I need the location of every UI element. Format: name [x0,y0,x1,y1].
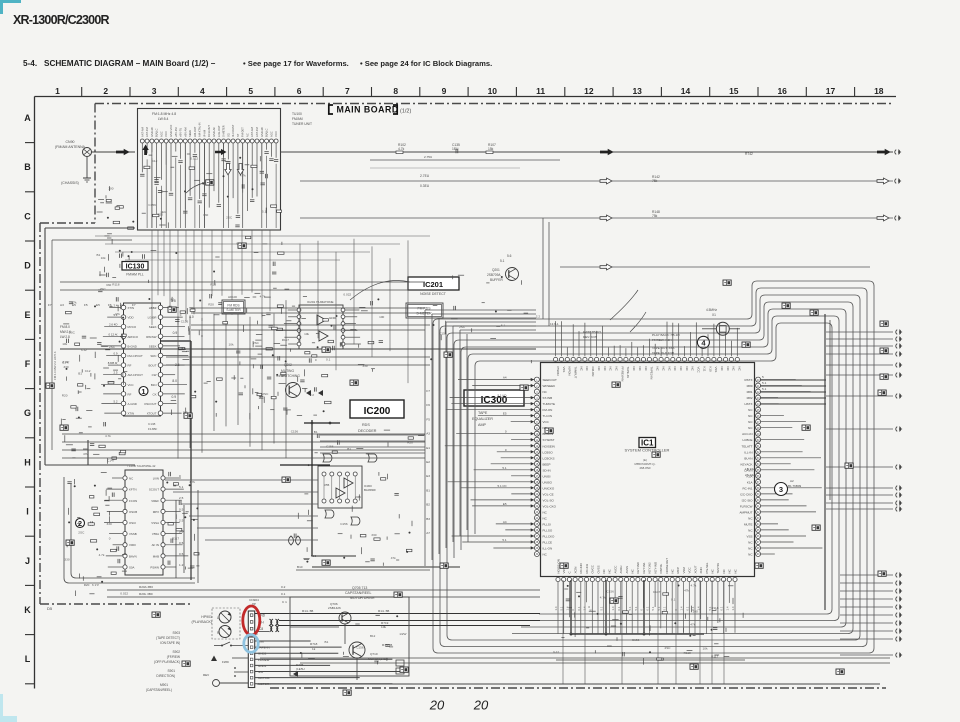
svg-text:NC: NC [129,477,133,481]
svg-text:LW:5.4: LW:5.4 [158,117,169,121]
svg-text:10k: 10k [381,625,386,629]
svg-text:VCC: VCC [697,367,701,373]
svg-text:C147: C147 [653,590,661,594]
svg-text:5.1: 5.1 [762,381,767,385]
svg-text:NC: NC [722,569,726,573]
svg-text:MPX: MPX [153,510,159,514]
svg-text:330: 330 [63,365,68,369]
svg-text:FM:8.0: FM:8.0 [60,325,70,329]
svg-text:SG: SG [226,133,230,137]
svg-text:V55: V55 [324,483,330,487]
svg-text:OSCI: OSCI [129,521,136,525]
svg-text:8: 8 [393,86,398,96]
svg-text:MAB: MAB [153,554,159,558]
svg-text:V000: V000 [129,543,136,547]
svg-text:CK: CK [152,392,156,396]
svg-text:0.1: 0.1 [617,606,621,610]
svg-text:F6: F6 [426,403,430,407]
svg-text:VSSA: VSSA [151,521,159,525]
svg-text:0.022: 0.022 [190,156,198,160]
svg-text:10k: 10k [101,256,106,260]
svg-text:B1.76B09: B1.76B09 [788,484,802,488]
svg-text:(CAPSTAN/REEL): (CAPSTAN/REEL) [146,688,172,692]
svg-text:NC: NC [585,367,589,371]
svg-text:KIPON: KIPON [568,367,572,376]
svg-text:10k: 10k [229,342,234,346]
svg-text:MOTOR DRIVE: MOTOR DRIVE [350,596,375,600]
svg-text:A7: A7 [426,531,430,535]
svg-text:12: 12 [584,86,594,96]
svg-text:H: H [24,457,31,467]
svg-text:0.1: 0.1 [326,358,331,362]
svg-text:17: 17 [826,86,836,96]
svg-text:(OFF:PLAYBACK): (OFF:PLAYBACK) [154,660,180,664]
svg-text:0.1: 0.1 [577,606,581,610]
svg-text:F: F [25,359,31,369]
svg-text:B3: B3 [426,517,430,521]
svg-text:20: 20 [473,698,489,713]
svg-text:4.7k: 4.7k [398,147,405,151]
svg-text:0-12: 0-12 [553,650,559,654]
svg-text:• See page 24 for IC Block Dia: • See page 24 for IC Block Diagrams. [360,59,492,68]
svg-text:C: C [24,211,31,221]
svg-text:R20: R20 [62,393,68,397]
svg-text:GND-AF: GND-AF [212,127,216,137]
svg-text:FM-DET: FM-DET [241,127,245,137]
svg-text:XTOUT: XTOUT [147,412,157,416]
svg-text:R118: R118 [684,651,691,655]
svg-text:B1: B1 [78,372,82,376]
svg-text:IF-AM: IF-AM [202,130,206,137]
svg-text:TAPE: TAPE [478,411,488,415]
svg-text:XOUT: XOUT [693,565,697,573]
svg-text:LVIN: LVIN [153,477,159,481]
svg-text:5: 5 [762,375,764,379]
svg-text:RSTX: RSTX [744,378,752,382]
svg-text:SEEKOUT: SEEKOUT [543,378,558,382]
svg-text:B10: B10 [297,565,303,569]
svg-text:C156: C156 [148,203,156,207]
svg-text:13: 13 [632,86,642,96]
svg-text:FM/AM: FM/AM [292,117,303,121]
svg-text:A3: A3 [60,303,64,307]
svg-text:AM-XTAL-IN: AM-XTAL-IN [198,122,202,137]
svg-text:FM:1.8 MHz 4.8: FM:1.8 MHz 4.8 [152,112,176,116]
svg-text:WFSEEK: WFSEEK [543,384,556,388]
svg-text:S-METER: S-METER [416,312,432,316]
svg-text:4.7k: 4.7k [99,553,105,557]
svg-text:C147: C147 [107,459,115,463]
svg-text:NOISE RET: NOISE RET [665,558,669,574]
svg-text:5.1 I/O: 5.1 I/O [497,484,507,488]
svg-text:MCP: MCP [676,567,680,573]
svg-text:OSCB: OSCB [129,510,137,514]
svg-text:MW:2.6: MW:2.6 [60,330,71,334]
svg-text:K1A: K1A [747,480,753,484]
svg-text:0.9: 0.9 [172,395,177,399]
svg-text:C156: C156 [439,332,447,336]
svg-text:M901: M901 [160,683,168,687]
svg-text:1.4: 1.4 [583,606,587,610]
svg-text:XR-1300R/C2300R: XR-1300R/C2300R [13,13,109,27]
svg-text:OVCC: OVCC [591,565,595,573]
svg-text:(1E5U: (1E5U [296,667,305,671]
svg-text:D5: D5 [47,606,53,611]
svg-text:NC: NC [691,367,695,371]
svg-text:M82: M82 [747,396,753,400]
svg-text:2.2: 2.2 [536,314,541,318]
svg-text:UNISO: UNISO [543,480,553,484]
svg-text:R718: R718 [310,642,318,646]
svg-text:NC: NC [579,367,583,371]
svg-text:1: 1 [141,387,145,396]
svg-text:RC-INO: RC-INO [579,562,583,573]
svg-text:AMPMUT: AMPMUT [740,510,753,514]
svg-text:0.5: 0.5 [179,552,184,556]
svg-text:R117: R117 [282,338,289,342]
svg-text:2SB709A: 2SB709A [487,273,501,277]
svg-text:A4: A4 [503,376,507,380]
svg-text:0: 0 [179,474,181,478]
svg-text:KEY-INO: KEY-INO [653,561,657,573]
svg-text:NC: NC [602,569,606,573]
svg-text:1k: 1k [312,647,316,651]
svg-text:R14-.5B: R14-.5B [378,609,389,613]
svg-text:PLAY BACK: H5-1H: PLAY BACK: H5-1H [652,333,680,337]
svg-text:2.75U: 2.75U [424,155,432,159]
svg-text:VSS: VSS [714,367,718,373]
svg-text:ARNCO: ARNCO [128,335,139,339]
svg-text:AVSS: AVSS [625,566,629,574]
svg-text:2.5: 2.5 [113,371,117,375]
svg-text:TAMRUT: TAMRUT [574,367,578,379]
svg-text:SRC: SRC [150,354,156,358]
svg-text:0.9: 0.9 [173,331,178,335]
svg-text:C156: C156 [181,320,189,324]
svg-text:MAIN BOARD: MAIN BOARD [337,105,399,115]
svg-text:ACC-IN: ACC-IN [742,432,752,436]
svg-text:R742: R742 [745,152,753,156]
svg-text:S903: S903 [173,631,181,635]
svg-text:(FM/AM ANTENNA: (FM/AM ANTENNA [55,145,86,149]
svg-text:1: 1 [55,86,60,96]
svg-text:NC: NC [597,367,601,371]
svg-text:S901: S901 [168,669,176,673]
svg-text:PLLSI: PLLSI [543,522,551,526]
svg-text:NC: NC [246,133,250,137]
svg-text:2SC: 2SC [100,287,107,291]
svg-text:IC1: IC1 [641,439,654,448]
svg-text:HSTX: HSTX [744,402,752,406]
svg-text:A3: A3 [426,432,430,436]
svg-text:IC201: IC201 [423,280,443,289]
svg-text:R20A 3B0: R20A 3B0 [139,585,153,589]
svg-text:2.5: 2.5 [179,519,184,523]
svg-text:B2: B2 [426,503,430,507]
svg-text:VDD: VDD [128,316,134,320]
svg-text:C138: C138 [148,422,156,426]
svg-text:330: 330 [371,533,376,537]
svg-text:E5: E5 [72,303,76,307]
svg-text:S-METER: S-METER [226,308,241,312]
svg-text:K11: K11 [702,367,706,372]
svg-text:0 12.4(: 0 12.4( [109,332,118,336]
svg-text:• See page 17 for Waveforms.: • See page 17 for Waveforms. [243,59,349,68]
svg-text:B(A)LC: B(A)LC [155,128,159,137]
svg-text:VOL-CE: VOL-CE [543,492,554,496]
svg-text:7: 7 [345,86,350,96]
svg-text:XNN: XNN [699,567,703,573]
svg-text:VSM: VSM [682,567,686,574]
svg-text:BUFFER: BUFFER [490,278,503,282]
svg-text:TUNER UNIT: TUNER UNIT [292,122,312,126]
svg-text:A-GND: A-GND [128,402,137,406]
svg-text:LW:2.8: LW:2.8 [60,335,70,339]
svg-text:NC: NC [632,367,636,371]
svg-text:C 1: C 1 [282,600,287,604]
svg-text:18: 18 [874,86,884,96]
svg-text:OVSS: OVSS [596,565,600,573]
svg-text:KEYACK: KEYACK [741,462,753,466]
svg-text:V55A: V55A [152,532,159,536]
svg-text:D: D [24,261,31,271]
svg-text:TESTIN: TESTIN [716,563,720,573]
svg-text:NC: NC [711,569,715,573]
svg-text:I2C-CKO: I2C-CKO [740,492,753,496]
svg-text:ONTRL: ONTRL [659,563,663,573]
svg-text:Q705 713: Q705 713 [352,586,367,590]
svg-text:2SC: 2SC [226,215,233,219]
svg-text:R20: R20 [311,554,317,558]
svg-text:E3: E3 [426,474,430,478]
svg-text:1.2: 1.2 [179,563,184,567]
svg-text:FF/REW-IN: FF/REW-IN [620,367,624,382]
svg-text:2.7EU: 2.7EU [420,174,430,178]
svg-text:BAVN: BAVN [129,554,137,558]
svg-text:SYSTEM CONTROLLER: SYSTEM CONTROLLER [625,448,670,453]
svg-text:CM-ON: CM-ON [591,367,595,377]
svg-text:8.0: 8.0 [189,315,194,319]
svg-text:5.1: 5.1 [502,466,507,470]
svg-text:C156: C156 [632,638,640,642]
svg-text:0.3EU: 0.3EU [420,184,430,188]
svg-text:RCH-OUT: RCH-OUT [207,125,211,137]
svg-text:AVRH: AVRH [619,566,623,574]
svg-text:100: 100 [693,610,698,614]
svg-text:J: J [25,556,30,566]
svg-text:VOL-SO: VOL-SO [543,498,555,502]
svg-text:1EU: 1EU [160,210,166,214]
svg-text:C147: C147 [62,361,70,365]
svg-text:NOISE DETECT: NOISE DETECT [420,292,447,296]
svg-text:4.5MHz: 4.5MHz [706,308,717,312]
svg-text:HR100: HR100 [228,295,237,299]
svg-text:F5: F5 [426,417,430,421]
svg-text:RC-IN1: RC-IN1 [742,486,752,490]
svg-text:NC: NC [656,367,660,371]
svg-text:F6: F6 [108,303,112,307]
svg-text:11: 11 [536,86,545,96]
svg-text:I2C-SIO: I2C-SIO [742,498,754,502]
svg-text:4.7k: 4.7k [260,295,266,299]
svg-text:C156: C156 [340,522,348,526]
svg-text:8.8/8.9(: 8.8/8.9( [108,361,118,365]
svg-text:GND-VCO: GND-VCO [169,125,173,137]
svg-text:F5: F5 [84,303,88,307]
svg-text:REV: K3H: REV: K3H [583,335,597,339]
svg-text:0.1: 0.1 [720,606,724,610]
svg-text:AF IN: AF IN [152,543,159,547]
svg-text:NOISEIN: NOISEIN [543,444,555,448]
svg-text:AMP: AMP [478,423,487,427]
svg-text:IC200: IC200 [364,406,391,417]
svg-text:AGC: AGC [269,131,273,137]
svg-text:SYSRST: SYSRST [543,438,555,442]
svg-text:2SC: 2SC [78,530,85,534]
svg-text:NC: NC [720,367,724,371]
svg-text:F7: F7 [132,303,136,307]
svg-text:47k: 47k [115,312,120,316]
svg-text:(FF/REW: (FF/REW [167,655,180,659]
svg-text:MUTE: MUTE [744,522,753,526]
svg-text:5: 5 [248,86,253,96]
svg-text:FM:1.6 MW:2.6 LW:5.6: FM:1.6 MW:2.6 LW:5.6 [53,351,57,380]
svg-text:S-METER: S-METER [222,125,226,137]
svg-text:8.0: 8.0 [172,379,177,383]
svg-text:GND-RF: GND-RF [150,126,154,137]
svg-text:OSCOUT: OSCOUT [144,402,157,406]
svg-text:C156: C156 [606,589,614,593]
svg-text:R20: R20 [210,283,216,287]
svg-text:LCH-OUT: LCH-OUT [217,125,221,137]
svg-text:LG-BR: LG-BR [148,316,157,320]
svg-text:5.2: 5.2 [113,400,117,404]
svg-text:1.4: 1.4 [565,606,569,610]
svg-text:B1: B1 [314,430,318,434]
svg-text:2.5: 2.5 [171,299,176,303]
svg-text:5.1: 5.1 [634,606,638,610]
svg-text:E5: E5 [503,412,507,416]
svg-text:NC: NC [685,367,689,371]
svg-text:RF: RF [128,392,132,396]
svg-text:0: 0 [588,605,590,609]
svg-text:XCIN: XCIN [573,567,577,574]
svg-text:0: 0 [315,358,317,362]
svg-text:L: L [217,616,219,620]
svg-text:TUMUTE: TUMUTE [543,402,556,406]
svg-text:G: G [24,408,31,418]
svg-text:14: 14 [681,86,691,96]
svg-text:B1: B1 [426,488,430,492]
svg-text:REV: REV [203,673,209,677]
svg-text:2SC: 2SC [262,392,269,396]
svg-text:VCO: VCO [164,131,168,137]
svg-text:F7: F7 [426,389,430,393]
svg-text:0.1: 0.1 [685,606,689,610]
svg-text:F7: F7 [48,303,52,307]
svg-text:(PLAYBACK): (PLAYBACK) [191,620,212,624]
svg-text:NC: NC [728,569,732,573]
svg-text:GND-RF: GND-RF [260,126,264,137]
svg-text:2.5: 2.5 [179,496,184,500]
svg-text:HM-OUT: HM-OUT [193,126,197,137]
svg-text:1.4: 1.4 [680,606,684,610]
svg-text:75k: 75k [652,214,658,218]
svg-text:TU100: TU100 [292,112,302,116]
svg-text:100: 100 [379,315,384,319]
svg-text:L: L [25,654,31,664]
svg-text:E5: E5 [96,303,100,307]
svg-text:15: 15 [729,86,739,96]
svg-text:TU-ON: TU-ON [543,414,553,418]
svg-text:ST: ST [236,133,240,137]
svg-text:0: 0 [109,536,111,540]
svg-text:MVCO: MVCO [128,325,137,329]
svg-text:100: 100 [108,187,113,191]
svg-text:PSWN: PSWN [150,566,159,570]
svg-text:13.6-1: 13.6-1 [550,322,559,326]
svg-text:NC: NC [679,367,683,371]
svg-text:HP901: HP901 [201,615,212,619]
svg-text:PWON: PWON [556,367,560,376]
svg-text:E2: E2 [426,460,430,464]
svg-text:2SC: 2SC [665,646,672,650]
svg-text:NC: NC [733,569,737,573]
svg-text:5.1 I/O: 5.1 I/O [497,394,507,398]
svg-text:B-GND: B-GND [128,344,137,348]
svg-text:47k: 47k [690,622,695,626]
svg-text:SD-IN: SD-IN [543,468,551,472]
svg-text:SEEK: SEEK [149,344,157,348]
svg-text:4: 4 [200,86,205,96]
svg-text:Q710: Q710 [370,652,378,656]
svg-text:T120B TAH6535E-42: T120B TAH6535E-42 [127,464,156,468]
svg-text:75k: 75k [652,179,658,183]
svg-text:(CHASSIS): (CHASSIS) [61,181,79,185]
svg-text:R20L 3B0: R20L 3B0 [139,592,153,596]
svg-text:2SB1426: 2SB1426 [328,606,341,610]
svg-text:4.7k: 4.7k [105,434,111,438]
svg-text:5-4.: 5-4. [23,59,37,68]
svg-text:0.5: 0.5 [179,507,184,511]
svg-text:0.1: 0.1 [671,598,676,602]
svg-text:RF: RF [128,364,132,368]
svg-text:16: 16 [777,86,787,96]
svg-text:E: E [24,310,30,320]
svg-text:VOL-CKO: VOL-CKO [543,504,557,508]
svg-text:C: C [568,571,572,573]
svg-text:3: 3 [779,485,783,494]
svg-text:UNISI: UNISI [543,474,551,478]
svg-text:10: 10 [488,86,498,96]
svg-text:1/2W: 1/2W [399,632,406,636]
svg-text:330: 330 [107,522,112,526]
svg-text:BA4560F: BA4560F [364,488,376,492]
svg-text:5.1: 5.1 [179,485,184,489]
svg-text:NC: NC [631,569,635,573]
svg-text:TAPE-IN: TAPE-IN [626,367,630,378]
svg-text:0.1: 0.1 [281,592,286,596]
svg-text:IC201 HUMATONE: IC201 HUMATONE [307,300,334,304]
svg-text:9: 9 [442,86,447,96]
svg-text:5.1: 5.1 [628,606,632,610]
svg-text:0.9: 0.9 [113,352,117,356]
svg-text:5.1: 5.1 [501,324,506,328]
svg-text:(1/2): (1/2) [400,109,411,115]
svg-text:E1: E1 [426,446,430,450]
svg-text:HBBZ: HBBZ [149,306,157,310]
svg-text:C156: C156 [356,645,364,649]
